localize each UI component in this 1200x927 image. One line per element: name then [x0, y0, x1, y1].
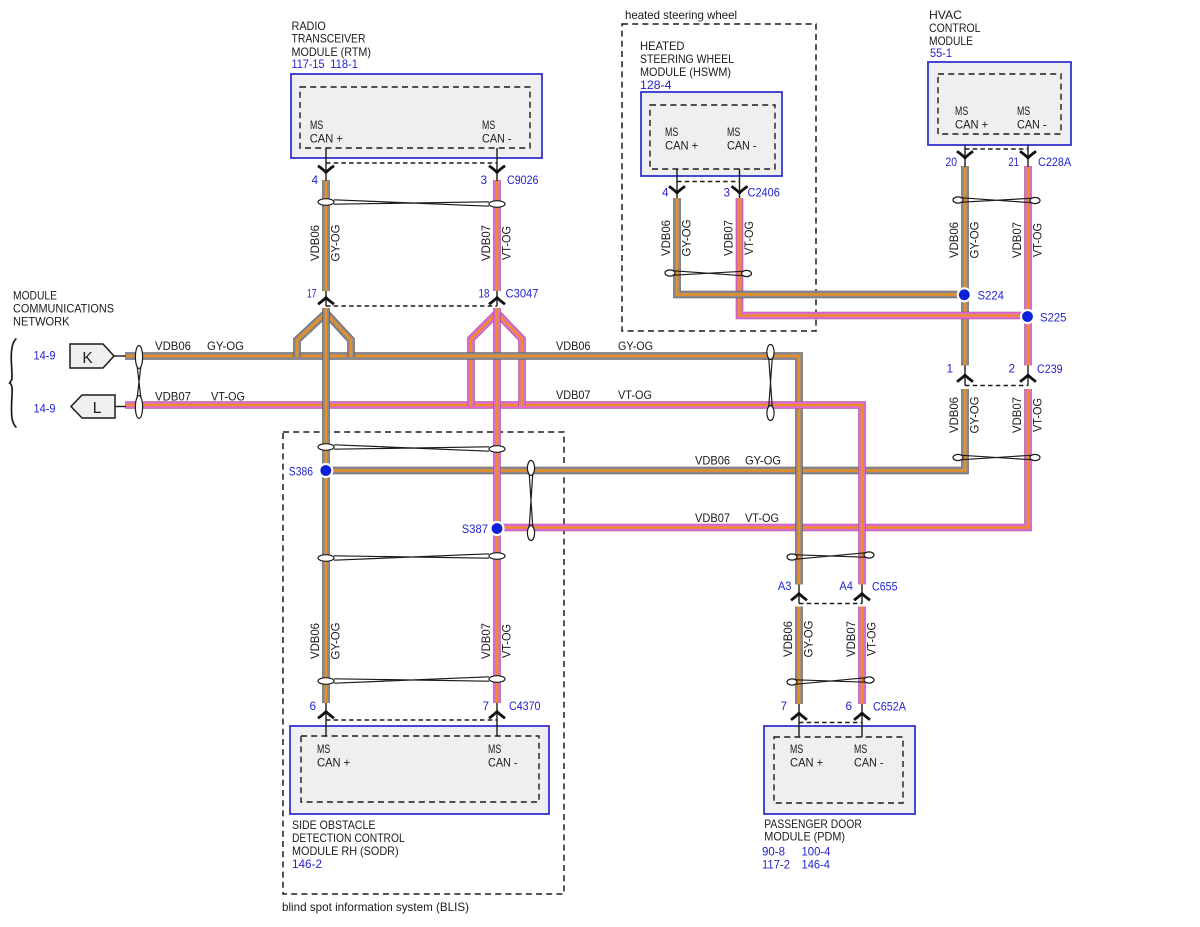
svg-text:C652A: C652A	[873, 700, 906, 714]
svg-text:VDB07: VDB07	[844, 621, 858, 657]
module communications network connector L	[71, 395, 115, 418]
svg-text:MODULE (PDM): MODULE (PDM)	[764, 830, 845, 844]
svg-text:DETECTION CONTROL: DETECTION CONTROL	[292, 831, 405, 845]
svg-text:VDB06: VDB06	[947, 397, 961, 433]
svg-text:VT-OG: VT-OG	[500, 226, 514, 260]
blind spot information system (BLIS) dashed box	[283, 432, 564, 894]
connector C228A pins 20 and 21	[964, 145, 966, 167]
svg-text:118-1: 118-1	[330, 57, 358, 71]
connector C9026 pins 4 and 3	[325, 148, 327, 181]
svg-text:14-9: 14-9	[34, 402, 56, 416]
svg-text:20: 20	[946, 155, 958, 169]
twisted pair RTM	[318, 199, 334, 206]
connector C4370 pins 6 and 7	[325, 703, 327, 736]
passenger door module (PDM) box	[764, 726, 915, 814]
svg-text:COMMUNICATIONS: COMMUNICATIONS	[13, 301, 114, 315]
svg-text:VT-OG: VT-OG	[742, 221, 756, 255]
twisted pair BLIS lower	[318, 678, 334, 685]
svg-text:VDB06: VDB06	[947, 222, 961, 258]
twisted pair above C655	[787, 554, 797, 560]
svg-text:VT-OG: VT-OG	[500, 624, 514, 658]
svg-text:NETWORK: NETWORK	[13, 314, 70, 328]
connector C239 pins 1 and 2	[964, 366, 966, 386]
svg-text:GY-OG: GY-OG	[680, 220, 694, 257]
svg-text:A4: A4	[839, 579, 853, 593]
twisted pair BLIS upper	[318, 444, 334, 451]
svg-text:C655: C655	[872, 580, 898, 594]
svg-text:GY-OG: GY-OG	[329, 623, 343, 660]
wire VDB06 GY-OG C655 pin A3 to C652A pin 7	[795, 607, 803, 705]
wire VDB07 VT-OG branch diagonals at pin 18	[471, 313, 497, 406]
svg-text:GY-OG: GY-OG	[968, 222, 982, 259]
svg-text:VDB06: VDB06	[556, 339, 591, 353]
splice S386	[318, 463, 333, 478]
radio transceiver module (RTM) box	[291, 74, 542, 158]
svg-text:L: L	[93, 400, 102, 417]
wire VDB06 GY-OG RTM pin 4 to C3047 pin 17	[322, 180, 330, 291]
svg-text:90-8: 90-8	[762, 845, 785, 859]
svg-text:MS: MS	[790, 742, 803, 756]
svg-text:18: 18	[479, 287, 490, 301]
svg-text:VDB06: VDB06	[781, 621, 795, 657]
svg-text:6: 6	[309, 699, 316, 713]
svg-text:117-15: 117-15	[292, 57, 325, 71]
svg-text:C3047: C3047	[506, 287, 539, 301]
svg-text:7: 7	[780, 699, 787, 713]
svg-text:VT-OG: VT-OG	[745, 511, 779, 525]
wire VDB07 VT-OG HSWM pin 3 to splice S225	[740, 198, 1029, 316]
wire VDB06 GY-OG elbow to C655 pin A3	[762, 356, 799, 585]
svg-text:VDB07: VDB07	[556, 388, 591, 402]
twisted pair HVAC	[953, 197, 963, 203]
svg-text:blind spot information system: blind spot information system (BLIS)	[282, 900, 469, 914]
svg-text:VT-OG: VT-OG	[618, 388, 652, 402]
wire VDB07 VT-OG HVAC pin 21 to C239 pin 2	[1024, 166, 1032, 366]
svg-text:VDB06: VDB06	[695, 454, 730, 468]
splice S224	[957, 287, 972, 302]
svg-text:MODULE RH (SODR): MODULE RH (SODR)	[292, 844, 399, 858]
svg-text:146-4: 146-4	[802, 858, 831, 872]
svg-text:S386: S386	[289, 465, 314, 479]
svg-text:4: 4	[311, 173, 318, 187]
svg-text:S387: S387	[462, 522, 488, 536]
svg-text:MS: MS	[665, 125, 678, 139]
svg-text:MS: MS	[727, 125, 740, 139]
twisted pair BLIS mid	[318, 555, 334, 562]
svg-text:21: 21	[1009, 155, 1020, 169]
wire VDB07 VT-OG main horizontal from L to C655 pin A4	[125, 405, 862, 585]
svg-text:100-4: 100-4	[802, 845, 831, 859]
svg-text:heated steering wheel: heated steering wheel	[625, 8, 737, 22]
wire VDB07 VT-OG C655 pin A4 to C652A pin 6	[858, 607, 866, 705]
twisted pair S386/S387	[527, 461, 534, 476]
svg-text:VDB07: VDB07	[155, 390, 191, 404]
twisted pair main run	[767, 345, 774, 360]
svg-text:CAN +: CAN +	[317, 756, 350, 770]
svg-text:VDB06: VDB06	[659, 220, 673, 256]
svg-text:VT-OG: VT-OG	[865, 622, 879, 656]
wire VDB06 GY-OG vertical to SODR pin 6	[322, 308, 330, 703]
svg-text:K: K	[82, 350, 93, 367]
svg-text:VDB06: VDB06	[308, 225, 322, 261]
twisted pair HSWM	[665, 270, 675, 276]
heated steering wheel module (HSWM) box	[641, 92, 782, 176]
svg-text:MS: MS	[955, 104, 968, 118]
svg-text:128-4: 128-4	[640, 78, 672, 92]
svg-text:GY-OG: GY-OG	[207, 339, 244, 353]
wire VDB06 GY-OG branch diagonals at pin 17	[297, 313, 326, 357]
connector C2406 pins 4 and 3	[676, 169, 678, 198]
svg-text:HVAC: HVAC	[929, 8, 962, 22]
svg-text:MS: MS	[1017, 104, 1030, 118]
wire VDB06 GY-OG HVAC vertical pin 20 to C239 pin 1	[961, 166, 969, 366]
svg-text:C228A: C228A	[1038, 155, 1071, 169]
svg-text:GY-OG: GY-OG	[802, 621, 816, 658]
svg-text:GY-OG: GY-OG	[968, 397, 982, 434]
connector C652A pins 7 and 6	[798, 704, 800, 737]
svg-text:C9026: C9026	[507, 173, 539, 187]
HVAC control module box	[928, 62, 1071, 145]
svg-text:VDB07: VDB07	[479, 623, 493, 659]
connector C655 pins A3 and A4	[798, 585, 800, 604]
svg-text:MODULE (HSWM): MODULE (HSWM)	[640, 65, 731, 79]
svg-text:S225: S225	[1040, 311, 1067, 325]
svg-text:7: 7	[482, 699, 489, 713]
svg-text:VT-OG: VT-OG	[1031, 398, 1045, 432]
svg-text:VDB07: VDB07	[479, 225, 493, 261]
svg-text:55-1: 55-1	[930, 46, 952, 60]
wire VDB07 VT-OG RTM pin 3 to C3047 pin 18	[493, 180, 501, 291]
svg-text:C4370: C4370	[509, 699, 541, 713]
twisted pair below C239	[953, 454, 963, 460]
svg-text:CAN +: CAN +	[665, 139, 698, 153]
wire VDB06 GY-OG splice S386 to C239 pin 1	[326, 389, 965, 471]
svg-text:GY-OG: GY-OG	[618, 339, 653, 353]
svg-text:MODULE: MODULE	[13, 288, 57, 302]
svg-text:CAN -: CAN -	[727, 139, 757, 153]
svg-text:CAN -: CAN -	[1017, 118, 1047, 132]
svg-text:VDB06: VDB06	[155, 339, 191, 353]
svg-text:1: 1	[946, 362, 953, 376]
svg-text:VDB07: VDB07	[1010, 397, 1024, 433]
twisted pair K/L	[135, 346, 142, 369]
svg-text:MS: MS	[488, 742, 501, 756]
heated steering wheel system dashed box	[622, 24, 816, 331]
svg-text:C239: C239	[1037, 362, 1063, 376]
module communications network connector K	[70, 344, 114, 368]
svg-text:14-9: 14-9	[34, 349, 56, 363]
svg-text:146-2: 146-2	[292, 857, 322, 871]
svg-text:4: 4	[662, 186, 669, 200]
splice S225	[1020, 309, 1035, 324]
svg-text:STEERING WHEEL: STEERING WHEEL	[640, 52, 734, 66]
svg-text:3: 3	[480, 173, 487, 187]
svg-text:CONTROL: CONTROL	[929, 21, 981, 35]
svg-text:VT-OG: VT-OG	[211, 390, 245, 404]
svg-text:CAN +: CAN +	[955, 118, 988, 132]
brace	[10, 339, 17, 428]
svg-text:117-2: 117-2	[762, 858, 790, 872]
svg-text:MS: MS	[317, 742, 330, 756]
svg-text:VDB07: VDB07	[695, 511, 730, 525]
svg-text:CAN -: CAN -	[854, 756, 884, 770]
svg-text:17: 17	[307, 287, 317, 301]
svg-text:CAN +: CAN +	[310, 132, 343, 146]
svg-text:CAN -: CAN -	[482, 132, 512, 146]
svg-text:GY-OG: GY-OG	[329, 225, 343, 262]
wire VDB06 GY-OG main horizontal from K	[125, 352, 770, 360]
svg-text:CAN +: CAN +	[790, 756, 823, 770]
svg-text:VT-OG: VT-OG	[1031, 223, 1045, 257]
svg-text:MS: MS	[482, 118, 495, 132]
svg-text:MS: MS	[310, 118, 323, 132]
connector C3047 pins 17 and 18	[325, 291, 327, 306]
svg-text:VDB06: VDB06	[308, 623, 322, 659]
svg-text:SIDE OBSTACLE: SIDE OBSTACLE	[292, 818, 376, 832]
svg-text:3: 3	[723, 186, 730, 200]
side obstacle detection control module RH (SODR) box	[290, 726, 549, 814]
svg-text:MS: MS	[854, 742, 867, 756]
splice S387	[489, 521, 504, 536]
wire VDB07 VT-OG splice S387 to C239 pin 2	[497, 389, 1028, 528]
wire VDB07 VT-OG vertical to SODR pin 7	[493, 308, 501, 703]
wire VDB06 GY-OG HSWM pin 4 to splice S224	[677, 198, 964, 295]
twisted pair above C652A	[787, 679, 797, 685]
svg-text:A3: A3	[778, 579, 792, 593]
svg-text:GY-OG: GY-OG	[745, 454, 781, 468]
svg-text:HEATED: HEATED	[640, 39, 685, 53]
svg-text:6: 6	[845, 699, 852, 713]
svg-text:2: 2	[1008, 362, 1015, 376]
svg-text:VDB07: VDB07	[722, 220, 736, 256]
svg-text:C2406: C2406	[748, 186, 781, 200]
svg-text:CAN -: CAN -	[488, 756, 518, 770]
svg-text:TRANSCEIVER: TRANSCEIVER	[292, 32, 366, 46]
svg-text:S224: S224	[978, 289, 1005, 303]
svg-text:VDB07: VDB07	[1010, 222, 1024, 258]
